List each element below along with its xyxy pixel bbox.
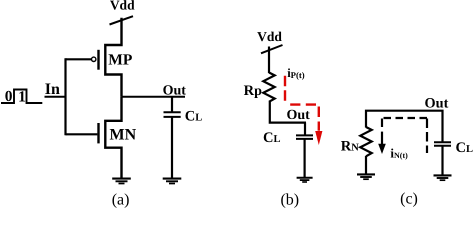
transistor MN (NMOS) xyxy=(99,97,122,178)
svg-text:0: 0 xyxy=(5,88,13,105)
current iN(t) dashed loop horizontal (black) xyxy=(384,117,428,119)
wire Rp to Out corner (b) xyxy=(270,102,306,123)
current iP(t) arrowhead (red) xyxy=(315,131,322,145)
resistor Rp xyxy=(263,73,274,102)
current iN(t) dashed loop right vertical (black) xyxy=(426,119,428,154)
ground (a) under CL xyxy=(163,179,182,184)
wire top rail (c) xyxy=(366,111,443,142)
wire RN to ground xyxy=(365,156,367,174)
svg-text:CL: CL xyxy=(185,108,203,124)
ground (c) under CL xyxy=(434,175,452,180)
current iP(t) dashed path vertical (red) xyxy=(284,76,286,101)
capacitor CL (a) xyxy=(164,97,181,178)
svg-text:Out: Out xyxy=(425,96,449,112)
wire Out horizontal (a) xyxy=(122,96,186,98)
svg-text:(b): (b) xyxy=(280,191,299,208)
wire NMOS gate xyxy=(66,133,98,135)
ground (b) xyxy=(297,178,313,182)
svg-text:iN(t): iN(t) xyxy=(390,145,408,160)
capacitor CL (c) xyxy=(434,142,451,174)
wire Vdd to Rp xyxy=(268,47,270,74)
current iN(t) dashed loop left vertical (black) xyxy=(381,119,383,145)
svg-text:CL: CL xyxy=(263,130,281,146)
Vdd supply symbol (a) xyxy=(110,16,134,24)
svg-text:MP: MP xyxy=(108,52,133,69)
svg-text:1: 1 xyxy=(18,89,26,106)
svg-text:Vdd: Vdd xyxy=(110,0,135,13)
svg-text:CL: CL xyxy=(456,140,474,156)
wire In horizontal xyxy=(45,96,67,98)
svg-text:iP(t): iP(t) xyxy=(287,66,305,80)
wire input vertical (gate bus) xyxy=(64,58,66,135)
svg-text:RN: RN xyxy=(341,139,359,155)
svg-text:Rp: Rp xyxy=(244,83,262,99)
Vdd supply symbol (b) xyxy=(261,45,283,53)
svg-text:Out: Out xyxy=(163,83,187,98)
ground (c) under RN xyxy=(357,174,375,179)
transistor MP (PMOS) xyxy=(92,18,122,97)
current iP(t) dashed path horizontal (red) xyxy=(290,103,316,105)
ground (a) under MN xyxy=(112,179,131,184)
svg-text:(c): (c) xyxy=(400,191,418,208)
svg-text:(a): (a) xyxy=(112,192,130,208)
input pulse source waveform xyxy=(1,90,42,104)
current iP(t) dashed path vertical 2 (red) xyxy=(318,107,320,131)
current iN(t) arrowhead (black) xyxy=(378,144,386,154)
wire PMOS gate xyxy=(66,58,92,60)
svg-text:Out: Out xyxy=(287,108,311,123)
svg-text:MN: MN xyxy=(110,127,137,144)
capacitor CL (b) xyxy=(296,123,313,177)
resistor RN xyxy=(360,127,371,156)
svg-text:In: In xyxy=(45,81,60,98)
svg-text:Vdd: Vdd xyxy=(257,29,282,44)
